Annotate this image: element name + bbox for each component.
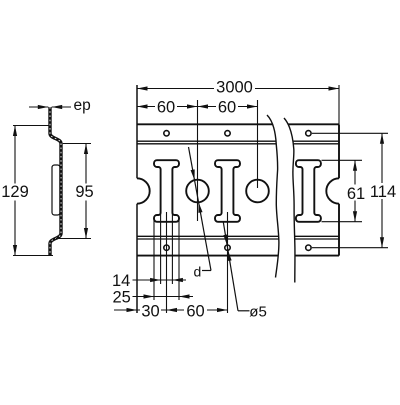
svg-text:60: 60: [218, 98, 236, 116]
dim 129 line: [14, 126, 16, 184]
arrow 14 left: [150, 278, 161, 282]
ext line slot2 center: [227, 212, 229, 313]
leader Ø5 line: [223, 222, 238, 311]
arrow 3000 right: [329, 86, 340, 90]
break line 2: [284, 118, 295, 283]
arrow 95 bottom: [84, 228, 88, 239]
svg-text:60: 60: [186, 302, 204, 320]
sheet profile core (white dotted): [50, 107, 61, 256]
leader d line: [189, 147, 212, 271]
arrow 25 right: [179, 294, 190, 298]
rail top edge: [137, 123, 339, 125]
bottom fold line 1: [137, 235, 339, 237]
left edge half-hole notch: [137, 178, 150, 203]
ext line 129 top: [13, 125, 50, 127]
bottom fold line 2: [137, 238, 339, 240]
ext line slot1 flange right: [178, 218, 180, 300]
extension line circle2 center: [257, 100, 259, 188]
ext line 95 top: [63, 143, 91, 145]
arrow d top (pointing into circle top): [191, 169, 197, 180]
rail left edge / extension line: [136, 85, 138, 178]
rail right edge: [338, 124, 340, 178]
svg-text:61: 61: [347, 185, 365, 203]
dim 60 (first) line: [137, 106, 155, 108]
arrow Ø5 lower (pointing up-left at rivet hole): [226, 250, 232, 261]
dim ep line right: [52, 106, 71, 108]
I-slot 2: [215, 160, 240, 222]
svg-text:ø5: ø5: [249, 304, 267, 321]
svg-text:25: 25: [113, 289, 131, 307]
dim 25 line: [133, 296, 194, 298]
ext line hole row top: [312, 132, 388, 134]
ext line 95 bottom: [56, 238, 91, 240]
arrow 61 bottom: [353, 211, 357, 222]
dim ep line left: [29, 106, 48, 108]
large hole circle 1: [186, 180, 209, 203]
top fold line 1: [137, 140, 339, 142]
dim 95 line: [85, 144, 87, 184]
ext line slot3 bottom: [322, 221, 363, 223]
rivet hole bottom row 3 (after break): [306, 245, 311, 250]
arrow 60b left: [198, 104, 209, 108]
rivet hole bottom row 1: [164, 245, 169, 250]
ext line hole row bottom: [312, 247, 388, 249]
dim 61 line: [354, 160, 356, 184]
svg-text:d: d: [194, 264, 202, 280]
rivet hole top row 2: [225, 131, 230, 136]
ridge strip on section: [52, 165, 60, 215]
top fold line 2: [137, 143, 339, 145]
rivet hole top row 1: [164, 131, 169, 136]
arrow 114 top: [380, 133, 384, 144]
break void (white gap between break lines): [267, 115, 295, 283]
arrow 60a left: [137, 104, 148, 108]
I-slot 3 (after break): [296, 160, 321, 222]
ext line slot1 stem left: [160, 212, 162, 284]
extension line circle1 center: [197, 100, 199, 221]
svg-text:95: 95: [75, 183, 93, 201]
svg-text:14: 14: [112, 272, 130, 290]
dim 3000 line: [137, 88, 214, 90]
leader Ø5 horizontal: [238, 310, 250, 312]
arrow 60b right: [247, 104, 258, 108]
I-slot 1: [154, 160, 179, 222]
rivet hole bottom row 2: [225, 245, 230, 250]
arrow Ø5 upper (pointing down-right at rivet hole): [223, 234, 229, 245]
arrow 60 left: [167, 308, 178, 312]
extension line right edge up to 3000 dim: [338, 85, 340, 124]
arrow 60 right: [217, 308, 228, 312]
dim 30/60 chain line: [114, 309, 140, 311]
rivet hole top row 3 (after break): [306, 131, 311, 136]
arrow 14 right: [172, 278, 183, 282]
arrow 95 top: [84, 144, 88, 155]
ext line slot3 top: [322, 159, 363, 161]
svg-text:ep: ep: [74, 97, 91, 114]
arrow 129 bottom: [13, 245, 17, 256]
arrow 61 top: [353, 160, 357, 171]
arrow 3000 left: [137, 86, 148, 90]
arrow 30 at rail edge: [127, 308, 138, 312]
svg-text:114: 114: [370, 183, 396, 201]
right edge half-hole notch: [326, 178, 339, 203]
arrow 60a right: [187, 104, 198, 108]
dim 60 (second) line: [198, 106, 217, 108]
arrow 114 bottom: [380, 237, 384, 248]
break line 1: [267, 115, 279, 278]
ext line slot1 center: [166, 212, 168, 313]
svg-text:3000: 3000: [216, 79, 253, 97]
rail bottom edge: [137, 255, 339, 257]
arrow 129 top: [13, 126, 17, 137]
arrow 25 left: [144, 294, 155, 298]
svg-text:30: 30: [141, 302, 159, 320]
arrow ep left: [38, 105, 49, 109]
ext line slot1 flange left: [153, 218, 155, 300]
ext line slot1 stem right: [171, 212, 173, 284]
svg-text:60: 60: [157, 98, 175, 116]
dim 114 line: [381, 133, 383, 183]
large hole circle 2: [246, 180, 269, 203]
arrow d bottom (pointing into circle bottom): [197, 202, 203, 213]
ext line 129 bottom: [13, 255, 53, 257]
dim 14 line: [133, 279, 187, 281]
svg-text:129: 129: [1, 183, 29, 201]
arrow ep right: [52, 105, 63, 109]
leader d horizontal: [202, 270, 211, 272]
sheet profile (thick): [50, 107, 61, 256]
